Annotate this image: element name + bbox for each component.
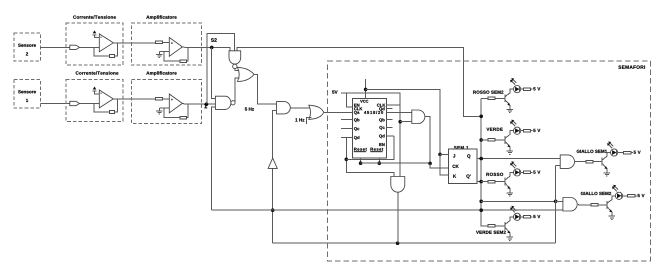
LED row3 rosso	[510, 161, 521, 176]
wire port to op-amp U3	[80, 103, 100, 105]
node reset right	[378, 161, 382, 165]
resistor R-fb4	[180, 116, 187, 119]
wire 5V rail to JK supply	[366, 89, 440, 154]
buffer B1	[268, 158, 277, 168]
pin stub Qb left	[341, 119, 353, 121]
wire U3 out to amp2	[113, 98, 157, 100]
resistor 5V row2 verde	[521, 130, 533, 133]
wire ground to minus input U2	[159, 51, 169, 53]
label 5 V row3 rosso	[533, 171, 540, 174]
node VCC junction	[364, 88, 368, 92]
wire sensor1 to port	[41, 103, 70, 105]
LED row4 verde sem2	[510, 206, 521, 221]
ground row3 rosso	[507, 193, 513, 196]
resistor base row3	[488, 180, 495, 183]
pin stub Qc left	[341, 128, 353, 130]
node rail clock	[479, 208, 483, 212]
label GIALLO SEM2	[581, 192, 611, 195]
label 5V counter	[332, 90, 337, 93]
wire buffer out to G4 bottom input	[273, 111, 277, 159]
label 5 V row5 giallo sem1	[634, 151, 641, 154]
OR gate G5 1Hz	[309, 105, 324, 119]
label S2	[211, 38, 217, 42]
wire J input	[440, 153, 449, 155]
wire to op-amp U2	[163, 41, 170, 43]
input port P2	[70, 45, 80, 49]
wire G1 out to OR1	[235, 69, 240, 71]
ground U4	[156, 108, 162, 114]
pin stub Qd right bottom	[387, 135, 394, 137]
label VERDE	[486, 128, 502, 131]
LED row5 giallo sem1	[607, 141, 618, 156]
resistor base row1	[488, 97, 495, 100]
label ROSSO	[486, 173, 503, 176]
resistor base row4	[488, 225, 495, 228]
feedback wire U1	[94, 43, 118, 56]
wire driver rail vertical	[481, 98, 488, 226]
node rail verde	[479, 138, 483, 142]
wire giallo vertical	[555, 166, 557, 244]
ground row4 verde sem2	[507, 237, 513, 240]
wire U4 output rail S1	[182, 102, 215, 105]
transistor row4 verde sem2	[505, 217, 513, 237]
ground row6 giallo sem2	[609, 216, 615, 219]
wire Qd left chain down to AND A2	[346, 137, 394, 178]
node A1 input2	[398, 120, 402, 124]
resistor 5V row6 giallo sem2	[623, 195, 637, 198]
wire OR2 out to counter CLK	[324, 111, 353, 113]
ground U2	[156, 52, 162, 58]
node rail S2	[479, 115, 483, 119]
node giallo branch	[554, 200, 558, 204]
block box Corrente/Tensione 2	[66, 71, 123, 121]
op-amp U1	[95, 34, 114, 52]
node rail giallo	[479, 200, 483, 204]
wire OR1 out down to AND 5Hz	[254, 74, 276, 104]
transistor row3 rosso	[505, 172, 513, 192]
wire to op-amp U4	[163, 98, 170, 100]
NAND gate G1 (pointing down)	[229, 51, 241, 69]
label 5 V row4 verde sem2	[533, 215, 540, 218]
wire ground to minus input U4	[159, 107, 169, 109]
resistor base row2	[488, 139, 495, 142]
label 1 Hz	[295, 118, 304, 121]
wire 5V to staircase	[341, 93, 400, 178]
wire G2 out to OR1 bottom input	[235, 78, 239, 103]
AND gate G4 5Hz	[277, 102, 291, 114]
label 5 V row2 verde	[533, 129, 540, 132]
NAND gate G2	[215, 96, 235, 109]
transistor row1 rosso sem2	[505, 89, 513, 109]
label VERDE SEM2	[476, 231, 506, 234]
op-amp U2	[169, 38, 182, 57]
op-amp U3	[95, 90, 114, 108]
wire J-K tie	[440, 154, 449, 175]
AND gate G7 giallo2	[563, 198, 577, 212]
AND gate A2 (pointing down)	[391, 177, 405, 193]
wire base row6	[578, 203, 607, 206]
wire reset rail y159	[346, 136, 394, 159]
block box Amplificatore 2	[131, 71, 201, 123]
resistor R-in1	[155, 41, 162, 44]
node and2 out	[396, 241, 400, 245]
SEMAFORI dashed box	[327, 61, 650, 261]
pin stub Qc right	[387, 126, 393, 128]
label GIALLO SEM1	[577, 150, 607, 153]
LED row2 verde	[510, 120, 521, 135]
resistor 5V row3 rosso	[521, 171, 533, 174]
feedback wire U4	[164, 103, 188, 117]
wire sensor2 to port	[41, 46, 70, 48]
wire U1 out to amp1	[113, 42, 157, 44]
wire OR2 bottom stub	[307, 117, 312, 124]
transistor row6 giallo sem2	[607, 196, 615, 216]
label 5 Hz	[245, 107, 254, 110]
wire base row5	[575, 161, 602, 163]
AND gate A1	[412, 110, 425, 124]
node rail Qbar	[479, 180, 483, 184]
ground row2 verde	[507, 151, 513, 154]
sensor box Sensore 2	[14, 33, 41, 61]
pin stub Qd right top	[387, 108, 393, 110]
node CK junction	[428, 162, 432, 166]
node Qd junction	[345, 158, 349, 162]
wire giallo rail	[481, 200, 555, 202]
node S2 junction	[210, 46, 214, 50]
wire base row3	[481, 181, 505, 183]
node clock junction	[271, 208, 275, 212]
block box Amplificatore 1	[131, 15, 201, 65]
label ROSSO SEM2	[473, 91, 503, 94]
wire G4 out to OR2	[290, 107, 311, 109]
resistor R-fb1	[110, 55, 115, 58]
OR gate G3	[238, 67, 255, 81]
wire Q' output	[477, 181, 481, 183]
pin stub Reset right down	[378, 158, 380, 163]
JK flip-flop U6 SEM 1	[449, 146, 477, 183]
wire base row1	[481, 97, 505, 99]
resistor base row5	[586, 160, 593, 163]
wire S2 down to NAND2 top input	[212, 47, 216, 98]
resistor base row6	[591, 204, 598, 207]
resistor 5V row1 rosso sem2	[521, 88, 533, 91]
wire gate2 top input	[556, 200, 563, 202]
wire base row4	[495, 225, 505, 227]
power arrow U1	[92, 30, 96, 34]
wire A1 out to CK node	[424, 117, 430, 164]
ground row5 giallo sem1	[604, 173, 610, 176]
wire clock rail y210	[212, 209, 563, 211]
pin stub CLK right	[387, 104, 401, 106]
feedback wire U2	[164, 47, 188, 61]
node S1 junction	[205, 102, 209, 106]
wire over-route down to S1	[206, 47, 208, 104]
label 5 V row6 giallo sem2	[638, 194, 645, 197]
AND gate G6 giallo1	[560, 155, 574, 169]
wire A1 input2	[400, 121, 412, 123]
wire VCC stub	[365, 79, 367, 99]
node reset left	[359, 161, 363, 165]
wire port to op-amp U1	[80, 46, 100, 48]
power arrow U3	[92, 87, 96, 91]
resistor R-in2	[155, 98, 162, 101]
wire Q output	[477, 158, 560, 160]
pin stub Reset left down	[360, 158, 362, 163]
ground row1 rosso sem2	[507, 110, 513, 113]
node rail Q	[479, 157, 483, 161]
wire staircase to CLK pin	[346, 93, 352, 107]
wire CK node to JK CK pin	[430, 163, 449, 167]
transistor row2 verde	[505, 131, 513, 151]
resistor 5V row5 giallo sem1	[618, 151, 633, 154]
wire S2 branch to NAND2 bottom input	[212, 107, 216, 210]
input port P1	[70, 101, 80, 105]
wire U2 output rail S2	[182, 47, 229, 51]
sensor box Sensore 1	[14, 80, 41, 109]
pin stub Qb right	[387, 119, 393, 121]
wire A2 output down	[397, 192, 399, 243]
wire rail east from NAND1	[237, 47, 481, 116]
node JK supply J	[438, 153, 442, 157]
LED row6 giallo sem2	[612, 185, 623, 200]
label 1	[204, 104, 207, 108]
LED row1 rosso sem2	[510, 78, 521, 93]
label 5 V row1 rosso sem2	[533, 87, 540, 90]
resistor R-fb2	[180, 60, 187, 63]
wire buffer input from node	[272, 168, 274, 243]
wire base row2	[481, 139, 505, 141]
wire giallo to gate1 input	[556, 165, 561, 167]
transistor row5 giallo sem1	[602, 153, 610, 173]
wire clock rail y243	[273, 242, 556, 244]
pin stub Qd left	[341, 136, 353, 138]
resistor 5V row4 verde sem2	[521, 216, 533, 219]
block box Corrente/Tensione 1	[66, 15, 123, 65]
counter IC U5 4518/20	[353, 99, 387, 159]
wire over-route to NAND1	[207, 33, 234, 51]
wire reset rail y163 to CK node	[361, 162, 431, 164]
feedback wire U3	[94, 99, 118, 112]
resistor R-fb3	[110, 111, 115, 114]
wire Qa row to AND A1	[387, 112, 412, 114]
op-amp U4	[169, 94, 182, 113]
